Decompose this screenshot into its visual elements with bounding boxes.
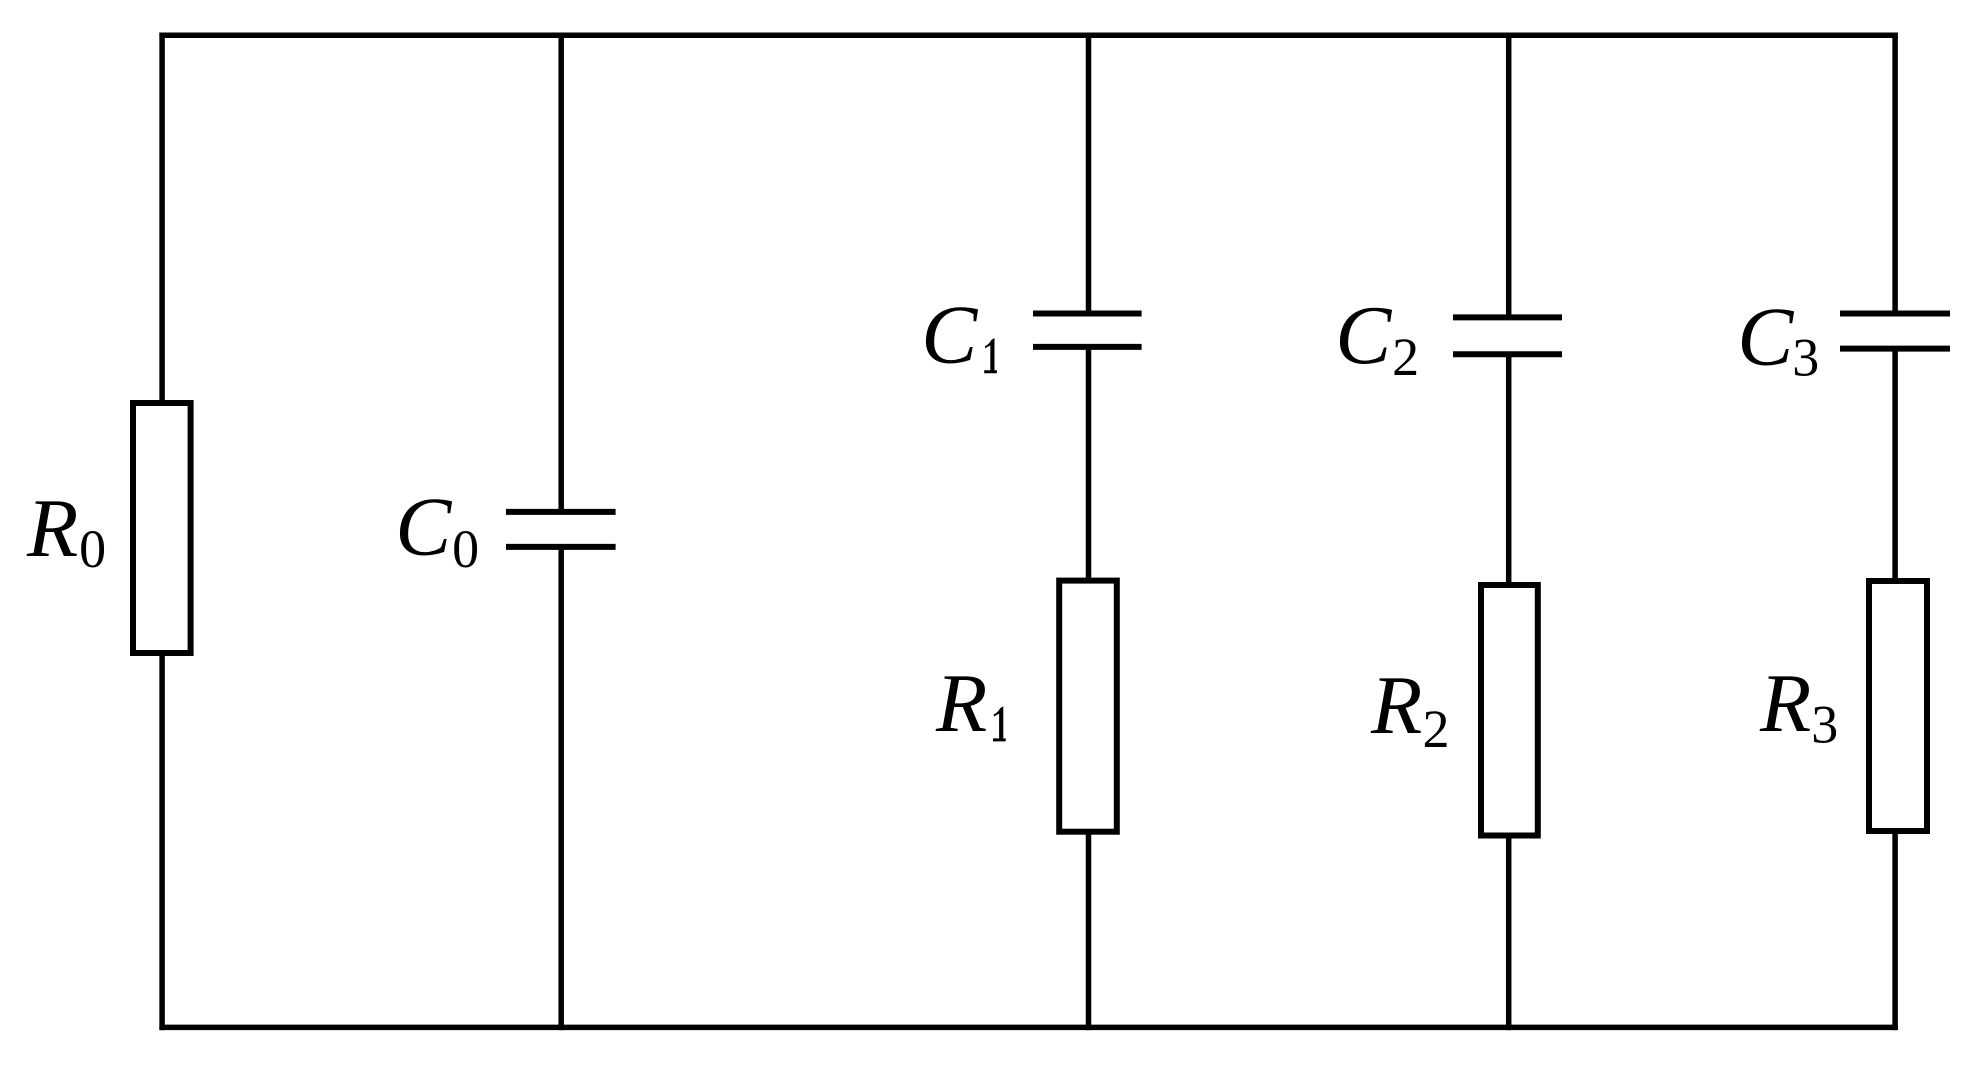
label C3 bbox=[1737, 291, 1819, 388]
svg-text:C: C bbox=[921, 289, 978, 382]
svg-text:R: R bbox=[1370, 659, 1422, 752]
wire C0 branch upper segment bbox=[558, 33, 564, 512]
wire branch2 upper segment bbox=[1506, 33, 1512, 318]
capacitor C0 bbox=[506, 512, 616, 547]
wire top bus bbox=[159, 32, 1897, 38]
wire right branch upper segment bbox=[1892, 33, 1898, 314]
svg-text:C: C bbox=[1335, 289, 1392, 382]
label C0 bbox=[395, 481, 479, 579]
wire branch2 lower segment bbox=[1506, 354, 1512, 1030]
svg-text:3: 3 bbox=[1792, 328, 1819, 388]
resistor R3 bbox=[1869, 581, 1927, 831]
label R2 bbox=[1370, 659, 1450, 759]
svg-text:R: R bbox=[935, 657, 987, 750]
svg-text:C: C bbox=[395, 481, 452, 574]
svg-text:2: 2 bbox=[1392, 327, 1419, 387]
wire bottom bus bbox=[159, 1025, 1897, 1031]
svg-text:2: 2 bbox=[1423, 699, 1450, 759]
svg-text:0: 0 bbox=[79, 519, 106, 579]
capacitor C3 bbox=[1840, 314, 1950, 349]
svg-text:0: 0 bbox=[452, 519, 479, 579]
label C1 bbox=[921, 289, 997, 382]
svg-text:C: C bbox=[1737, 291, 1794, 384]
svg-text:3: 3 bbox=[1811, 695, 1838, 755]
capacitor C2 bbox=[1453, 317, 1562, 354]
label R0 bbox=[26, 482, 106, 579]
wire right branch lower segment bbox=[1892, 349, 1898, 1031]
resistor R1 bbox=[1059, 581, 1117, 832]
wire branch1 lower segment bbox=[1086, 347, 1092, 1030]
capacitor C1 bbox=[1033, 314, 1142, 347]
svg-text:R: R bbox=[1759, 657, 1811, 750]
wire branch1 upper segment bbox=[1086, 33, 1092, 314]
label R1 bbox=[935, 657, 1006, 750]
wire C0 branch lower segment bbox=[558, 547, 564, 1030]
resistor R0 bbox=[133, 403, 191, 653]
resistor R2 bbox=[1481, 585, 1538, 836]
label C2 bbox=[1335, 289, 1419, 387]
wire left branch bbox=[159, 33, 165, 1031]
label R3 bbox=[1759, 657, 1838, 755]
svg-text:R: R bbox=[26, 482, 78, 575]
